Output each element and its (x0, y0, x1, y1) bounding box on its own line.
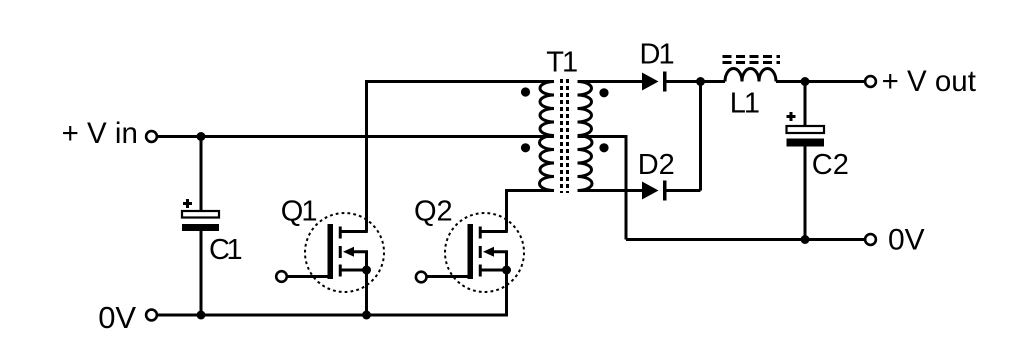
transformer T1 (521, 79, 609, 193)
T1 phase dot primary bottom (521, 143, 530, 152)
T1 secondary winding (right) (578, 82, 593, 191)
wire Q2 source to rail (505, 270, 508, 317)
terminal 0V input (146, 310, 157, 321)
T1 primary winding (left) (539, 82, 554, 191)
wire D2 cathode to vertical (666, 189, 701, 192)
wire Q2 drain to primary bottom (507, 191, 555, 232)
node junction +Vin / C1 (197, 132, 206, 141)
terminal + V out (865, 76, 876, 87)
wire cathode junction vertical (699, 82, 702, 191)
L1 winding (725, 69, 776, 82)
Q1 source lead (342, 269, 368, 272)
Q1 drain lead (342, 230, 368, 233)
Q1 gate lead wire (288, 275, 331, 278)
svg-text:C1: C1 (209, 234, 241, 266)
wire secondary bottom to D2 (578, 189, 643, 192)
wire +Vin rail to transformer center tap (157, 135, 554, 138)
node junction rail / Q1 source (362, 311, 371, 320)
svg-text:+ V out: + V out (882, 65, 976, 98)
Q1 body arrow (343, 247, 354, 257)
Q2 channel segment top (479, 227, 482, 239)
wire C1 bottom lead (200, 231, 203, 315)
D1 cathode bar (663, 72, 667, 92)
L1 core dashes top row (723, 55, 781, 58)
capacitor C2 bottom plate (787, 139, 825, 147)
capacitor C1 top plate (182, 211, 219, 218)
diode D1 (642, 72, 665, 92)
wire secondary center tap down (578, 137, 627, 240)
svg-text:Q1: Q1 (281, 196, 317, 228)
Q2 source lead (482, 269, 508, 272)
Q1 gate terminal circle (276, 271, 287, 282)
Q2 gate bar (468, 224, 474, 279)
terminal + V in (146, 131, 157, 142)
T1 phase dot primary top (521, 87, 530, 96)
node C2 / 0V rail junction (801, 235, 810, 244)
Q2 channel segment bottom (479, 265, 482, 277)
Q1 channel segment top (339, 227, 342, 239)
T1 phase dot secondary bottom (599, 143, 608, 152)
wire C2 top lead (804, 82, 807, 128)
node L1 / C2 junction (801, 77, 810, 86)
Q1 body lead (352, 252, 367, 270)
wire C2 bottom lead (804, 146, 807, 240)
Q1 gate bar (328, 224, 334, 279)
Q2 gate terminal circle (416, 272, 427, 283)
Q1 channel segment middle (339, 246, 342, 258)
svg-text:T1: T1 (546, 47, 577, 79)
capacitor C2 top plate (787, 126, 825, 133)
Q1 body circle (305, 213, 384, 292)
D2 triangle (642, 182, 659, 200)
wire D1 cathode to node (666, 80, 701, 83)
diode D2 (642, 181, 665, 201)
node junction rail / C1 (197, 311, 206, 320)
svg-text:D1: D1 (640, 39, 674, 71)
svg-text:Q2: Q2 (414, 196, 453, 228)
Q2 body circle (445, 213, 524, 292)
transistor Q1 (276, 213, 384, 292)
svg-text:D2: D2 (638, 149, 675, 181)
D1 triangle (642, 73, 659, 91)
L1 core dashes bottom row (723, 61, 781, 64)
Q2 body lead (492, 252, 507, 270)
Q2 drain lead (482, 230, 508, 233)
capacitor C1 bottom plate (182, 224, 219, 231)
Q2 body arrow (483, 247, 494, 257)
transistor Q2 (416, 213, 524, 292)
Q2 channel segment middle (479, 246, 482, 258)
wire L1 to output (776, 80, 865, 83)
T1 phase dot secondary top (599, 88, 608, 97)
wire node to L1 (701, 80, 726, 83)
T1 core dashed line right (566, 79, 569, 193)
Q2 source node (502, 266, 511, 275)
node D1/D2 cathodes junction (696, 77, 705, 86)
wire 0V output rail (626, 238, 865, 241)
Q2 gate lead wire (428, 275, 471, 278)
svg-text:+ V in: + V in (62, 117, 138, 150)
Q1 source node (362, 266, 371, 275)
Q1 channel segment bottom (339, 265, 342, 277)
wire Q1 drain up and over to primary top (367, 82, 555, 232)
inductor L1 (723, 57, 781, 82)
D2 cathode bar (663, 181, 667, 201)
svg-text:0V: 0V (98, 300, 136, 335)
T1 core dashed line left (560, 79, 563, 193)
capacitor C2 plus mark (787, 112, 796, 121)
svg-text:C2: C2 (812, 149, 849, 181)
capacitor C1 plus mark (183, 199, 192, 208)
wire Q1 source to rail (365, 270, 368, 315)
wire secondary top to D1 (578, 80, 643, 83)
wire 0V bottom rail (157, 314, 507, 317)
svg-text:L1: L1 (730, 88, 759, 120)
svg-text:0V: 0V (888, 223, 925, 256)
wire C1 top lead (200, 137, 203, 213)
terminal 0V output (865, 234, 876, 245)
